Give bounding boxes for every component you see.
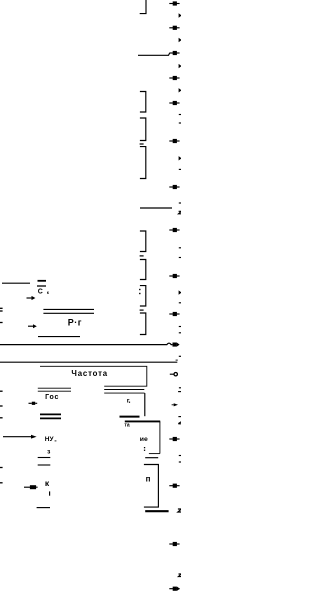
label z glyph bbox=[47, 449, 51, 456]
off-page arrowhead (clipped) bbox=[179, 13, 182, 17]
off-page arrow bbox=[169, 542, 179, 546]
left edge stub bbox=[0, 405, 3, 407]
left edge stub bbox=[0, 390, 3, 392]
off-page arrowhead bbox=[174, 403, 178, 406]
off-page arrow bbox=[169, 274, 179, 278]
off-page arrow bbox=[169, 26, 179, 30]
net tick (clipped) bbox=[178, 422, 181, 424]
net tick (clipped) bbox=[178, 509, 182, 512]
inverter circle arrow bbox=[170, 373, 178, 376]
left edge stub bbox=[0, 482, 3, 484]
bus double line bbox=[43, 309, 94, 313]
label NU bbox=[45, 436, 57, 443]
colon dots in box3 bbox=[144, 447, 145, 451]
block box3 top bbox=[125, 420, 160, 422]
svg-text:г: г bbox=[127, 398, 130, 405]
svg-text:з: з bbox=[47, 449, 51, 456]
left edge stub bbox=[0, 417, 3, 419]
svg-text:Гос: Гос bbox=[45, 394, 59, 401]
net tick (clipped) bbox=[179, 247, 182, 249]
svg-text:та: та bbox=[124, 423, 129, 429]
svg-text:к: к bbox=[47, 290, 50, 295]
off-page arrowhead (clipped) bbox=[179, 64, 182, 68]
off-page arrowhead (clipped) bbox=[179, 88, 182, 92]
connector bracket B7 bbox=[140, 313, 146, 335]
connector bracket top (clipped) bbox=[140, 0, 146, 14]
connector bracket B5 bbox=[140, 260, 146, 280]
svg-text:п: п bbox=[146, 475, 151, 484]
label ie in box3 bbox=[140, 436, 148, 443]
label Gos bbox=[45, 394, 59, 401]
block box1 bbox=[40, 366, 147, 386]
label k bbox=[45, 478, 50, 488]
off-page arrow bbox=[169, 101, 179, 105]
left edge stub bbox=[0, 467, 3, 469]
off-page arrowhead (clipped) bbox=[179, 290, 182, 294]
net tick (clipped) bbox=[178, 391, 181, 393]
off-page arrow bbox=[169, 76, 179, 80]
net tick z (clipped) bbox=[178, 574, 181, 577]
dash below box3 bbox=[145, 457, 158, 459]
pin pair bbox=[38, 388, 71, 391]
net tick (clipped) bbox=[179, 257, 182, 259]
svg-text:ие: ие bbox=[140, 436, 148, 443]
net tick (clipped) bbox=[179, 202, 182, 204]
net tick (clipped) bbox=[179, 326, 182, 328]
net tick (clipped) bbox=[179, 461, 182, 463]
block box2 double top bbox=[104, 390, 145, 417]
block box3 bottom bbox=[149, 453, 160, 455]
left edge stub bbox=[0, 322, 3, 324]
off-page arrow bbox=[169, 185, 179, 189]
off-page arrow bbox=[169, 51, 179, 55]
label p in box4 bbox=[146, 475, 151, 484]
capacitor plate bbox=[38, 280, 47, 282]
connector bracket B6 bbox=[140, 286, 146, 306]
stub dash bbox=[140, 255, 144, 257]
thick pin pair bbox=[40, 414, 61, 418]
svg-text:Частота: Частота bbox=[71, 369, 108, 378]
long arrow NU bbox=[3, 435, 37, 439]
label C bbox=[38, 288, 50, 295]
wire bbox=[38, 336, 80, 338]
bus wire 2 bbox=[0, 360, 178, 362]
net tick (clipped) bbox=[179, 387, 182, 389]
arrow bbox=[28, 324, 37, 328]
off-page arrow bbox=[169, 139, 179, 143]
svg-text:к: к bbox=[45, 478, 50, 488]
block box4 bracket bbox=[144, 465, 159, 508]
wire bbox=[138, 53, 170, 55]
pin line bbox=[37, 507, 50, 509]
stub dash bbox=[140, 143, 144, 145]
net tick (clipped) bbox=[179, 455, 182, 457]
net tick (clipped) bbox=[179, 355, 182, 357]
node dots bbox=[139, 289, 140, 294]
connector bracket B1 bbox=[140, 92, 146, 113]
arrow bbox=[27, 296, 36, 300]
block box3 right bbox=[159, 421, 161, 453]
stub dash bbox=[140, 309, 144, 311]
svg-text:НУ: НУ bbox=[45, 436, 55, 443]
net tick (clipped) bbox=[179, 168, 182, 170]
connector bracket B4 bbox=[140, 231, 146, 252]
block box2 bottom bbox=[120, 416, 140, 418]
off-page arrowhead (clipped) bbox=[179, 38, 182, 42]
net tick (clipped) bbox=[179, 332, 182, 334]
wire bbox=[2, 282, 30, 284]
net tick (clipped) bbox=[179, 114, 182, 116]
off-page arrow bbox=[169, 587, 180, 591]
label Chastota bbox=[71, 369, 108, 378]
net tick (clipped) bbox=[179, 302, 182, 304]
label P.g bbox=[68, 317, 82, 327]
thick terminal line bbox=[145, 510, 168, 512]
off-page arrow bbox=[169, 1, 179, 5]
left edge stub bbox=[0, 310, 3, 312]
connector bracket B3 bbox=[140, 147, 146, 179]
left edge stub bbox=[0, 307, 3, 309]
capacitor plate bbox=[37, 285, 46, 287]
label g in box2 bbox=[127, 398, 130, 405]
label i tick bbox=[49, 491, 51, 495]
net tick (clipped) bbox=[179, 122, 182, 124]
arrow bbox=[29, 402, 38, 405]
off-page arrow bbox=[169, 437, 179, 441]
off-page arrow bbox=[169, 228, 179, 232]
off-page arrowhead (clipped) bbox=[179, 156, 182, 160]
net tick z (clipped) bbox=[179, 211, 182, 214]
svg-text:Р·г: Р·г bbox=[68, 317, 82, 327]
off-page arrow bbox=[169, 484, 179, 488]
label ta bbox=[124, 423, 129, 429]
pin line bbox=[38, 464, 51, 466]
off-page arrow bbox=[169, 312, 179, 316]
connector bracket B2 bbox=[140, 118, 146, 141]
arrow chunky bbox=[24, 485, 38, 489]
net tick (clipped) bbox=[178, 416, 181, 418]
bus wire 1 with hop and arrow bbox=[0, 342, 180, 346]
svg-text:С: С bbox=[38, 288, 43, 295]
wire bbox=[140, 207, 172, 209]
pin line bbox=[38, 457, 51, 459]
